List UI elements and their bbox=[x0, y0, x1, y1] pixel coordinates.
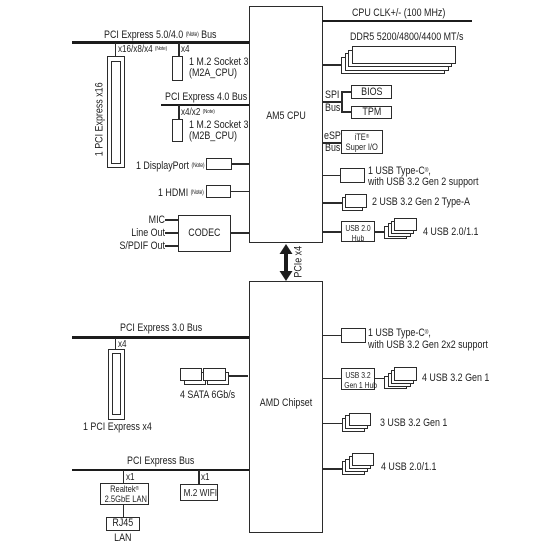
AM5 CPU label bbox=[256, 111, 316, 123]
4 USB 3.2 Gen 1 stack bbox=[384, 376, 407, 390]
4 SATA 6Gb/s label bbox=[180, 390, 235, 402]
wire: CPU to USB Type-C bbox=[322, 175, 340, 177]
4 USB 2.0/1.1 label (CPU) bbox=[423, 227, 478, 239]
1 USB Type-C label (chipset) bbox=[368, 327, 488, 351]
wire: bus to PCIe x16 slot bbox=[115, 43, 117, 57]
3 USB 3.2 Gen 1 stack bbox=[342, 418, 365, 432]
Bus label (eSPI) bbox=[325, 143, 340, 155]
iTE Super I/O label bbox=[345, 133, 379, 153]
wire: bus to M.2 WIFI bbox=[198, 470, 200, 484]
wire: SPI bracket vertical bbox=[341, 91, 343, 113]
wire: CPU to USB 2.0 hub bbox=[322, 231, 341, 233]
DDR5 DIMM stack (4 slots) bbox=[341, 57, 445, 75]
DisplayPort box bbox=[206, 158, 232, 170]
PCI Express x4 slot (inner) bbox=[112, 353, 121, 415]
USB Type-C (CPU) box bbox=[340, 168, 365, 183]
x1 label (LAN) bbox=[126, 472, 135, 484]
SPI label bbox=[325, 90, 339, 102]
x4 label (M2A) bbox=[181, 44, 190, 56]
wire: chipset to USB Type-C bbox=[322, 335, 341, 337]
PCI Express 5.0/4.0 Bus label bbox=[104, 29, 217, 42]
PCI Express Bus label bbox=[127, 456, 194, 468]
4 USB 2.0/1.1 label (chipset) bbox=[381, 462, 436, 474]
1 DisplayPort label bbox=[136, 160, 204, 173]
4 SATA stack (back pair) bbox=[184, 372, 206, 385]
AMD Chipset box bbox=[249, 281, 323, 533]
1 PCI Express x4 label bbox=[83, 422, 152, 434]
LAN label bbox=[110, 533, 137, 545]
M.2 WIFI box bbox=[180, 484, 218, 501]
4 SATA stack (front pair) bbox=[180, 368, 202, 381]
wire: PCI Express 5.0/4.0 bus line bbox=[72, 41, 249, 44]
RJ45 label bbox=[110, 518, 137, 530]
1 USB Type-C label (CPU) bbox=[368, 165, 478, 189]
1 PCI Express x16 label (rotated) bbox=[94, 83, 106, 156]
wire: CPU to SPI bracket bbox=[322, 101, 343, 103]
wire: PCI Express bus line bbox=[72, 469, 249, 472]
1 M.2 Socket 3 (M2A_CPU) label bbox=[189, 57, 248, 79]
USB Type-C (chipset) box bbox=[341, 328, 366, 343]
3 USB 3.2 Gen 1 label bbox=[380, 418, 447, 430]
4 USB 2.0/1.1 stack (chipset) bbox=[342, 461, 365, 474]
wire: Realtek to RJ45 bbox=[123, 505, 125, 517]
CPU CLK label bbox=[352, 8, 445, 20]
wire: SATA to chipset bbox=[229, 375, 248, 377]
wire: CODEC to CPU bbox=[231, 232, 249, 234]
USB 2.0 Hub box bbox=[341, 221, 375, 242]
PCI Express x16 slot (outer) bbox=[107, 56, 125, 168]
wire: Line Out to CODEC bbox=[165, 232, 178, 234]
PCI Express 4.0 Bus label bbox=[165, 92, 247, 104]
PCI Express 3.0 Bus label bbox=[120, 323, 202, 335]
wire: CPU to 2 USB stack bbox=[322, 202, 342, 204]
DDR5 label bbox=[350, 32, 463, 44]
MIC label bbox=[116, 215, 165, 227]
iTE Super I/O box bbox=[341, 130, 383, 155]
AMD Chipset label bbox=[256, 398, 316, 410]
CODEC label bbox=[183, 228, 226, 240]
wire: PCI Express 4.0 bus line bbox=[161, 104, 249, 107]
M.2 WIFI label bbox=[183, 488, 214, 500]
wire: chipset to USB 3.2 hub bbox=[322, 378, 341, 380]
4 USB 2.0/1.1 stack (CPU) bbox=[384, 226, 407, 239]
PCIe x4 arrow between CPU and chipset bbox=[276, 243, 296, 282]
wire: S/PDIF Out to CODEC bbox=[165, 245, 178, 247]
USB 3.2 Gen 1 Hub label bbox=[345, 371, 373, 391]
PCI Express x4 slot (outer) bbox=[108, 349, 126, 421]
wire: bracket to TPM bbox=[341, 111, 351, 113]
M.2 socket M2B box bbox=[172, 119, 184, 143]
wire: DisplayPort to CPU bbox=[232, 163, 249, 165]
RJ45 box bbox=[106, 517, 140, 532]
M.2 socket M2A box bbox=[172, 56, 184, 81]
1 HDMI label bbox=[158, 187, 204, 200]
eSPI label bbox=[324, 131, 343, 143]
wire: chipset to 4 USB 2.0 stack bbox=[322, 468, 342, 470]
2 USB 3.2 Gen 2 Type-A label bbox=[372, 197, 470, 209]
wire: CPU to DIMM stack bbox=[322, 64, 341, 66]
wire: MIC to CODEC bbox=[165, 219, 178, 221]
wire: CPU CLK line bbox=[322, 20, 472, 23]
wire: hub to 4 USB stack bbox=[375, 231, 384, 233]
Line Out label bbox=[116, 228, 165, 240]
x16/x8/x4 label bbox=[118, 44, 167, 56]
TPM box bbox=[351, 106, 393, 120]
TPM label bbox=[355, 107, 389, 119]
wire: bus to M2A socket bbox=[178, 43, 180, 56]
HDMI box bbox=[206, 185, 231, 199]
BIOS label bbox=[355, 87, 389, 99]
USB 2.0 Hub label bbox=[345, 224, 373, 244]
wire: bracket to BIOS bbox=[341, 91, 351, 93]
x1 label (WIFI) bbox=[201, 472, 210, 484]
wire: bus to PCIe x4 slot bbox=[115, 338, 117, 349]
S/PDIF Out label bbox=[116, 241, 165, 253]
2 USB 3.2 Gen 2 stack bbox=[342, 197, 364, 211]
wire: bus to M2B socket bbox=[178, 105, 180, 119]
wire: HDMI to CPU bbox=[231, 191, 249, 193]
4 USB 3.2 Gen 1 label bbox=[422, 373, 489, 385]
PCIe x4 label (rotated) bbox=[293, 237, 305, 286]
USB 3.2 Gen 1 Hub box bbox=[341, 368, 375, 390]
AM5 CPU box bbox=[249, 6, 323, 243]
PCI Express x16 slot (inner) bbox=[111, 61, 121, 165]
CODEC box bbox=[178, 215, 231, 252]
wire: PCI Express 3.0 bus line bbox=[72, 336, 249, 339]
BIOS box bbox=[351, 85, 393, 99]
1 M.2 Socket 3 (M2B_CPU) label bbox=[189, 120, 248, 142]
Realtek label bbox=[105, 485, 145, 504]
wire: CPU to iTE bbox=[322, 142, 341, 144]
x4 label (slot) bbox=[118, 339, 127, 351]
wire: bus to Realtek bbox=[123, 470, 125, 483]
Realtek 2.5GbE LAN box bbox=[100, 483, 149, 505]
x4/x2 label bbox=[181, 107, 215, 119]
Bus label (SPI) bbox=[325, 103, 340, 115]
wire: hub to 4 USB 3.2 stack bbox=[375, 378, 384, 380]
wire: chipset to 3 USB stack bbox=[322, 423, 342, 425]
